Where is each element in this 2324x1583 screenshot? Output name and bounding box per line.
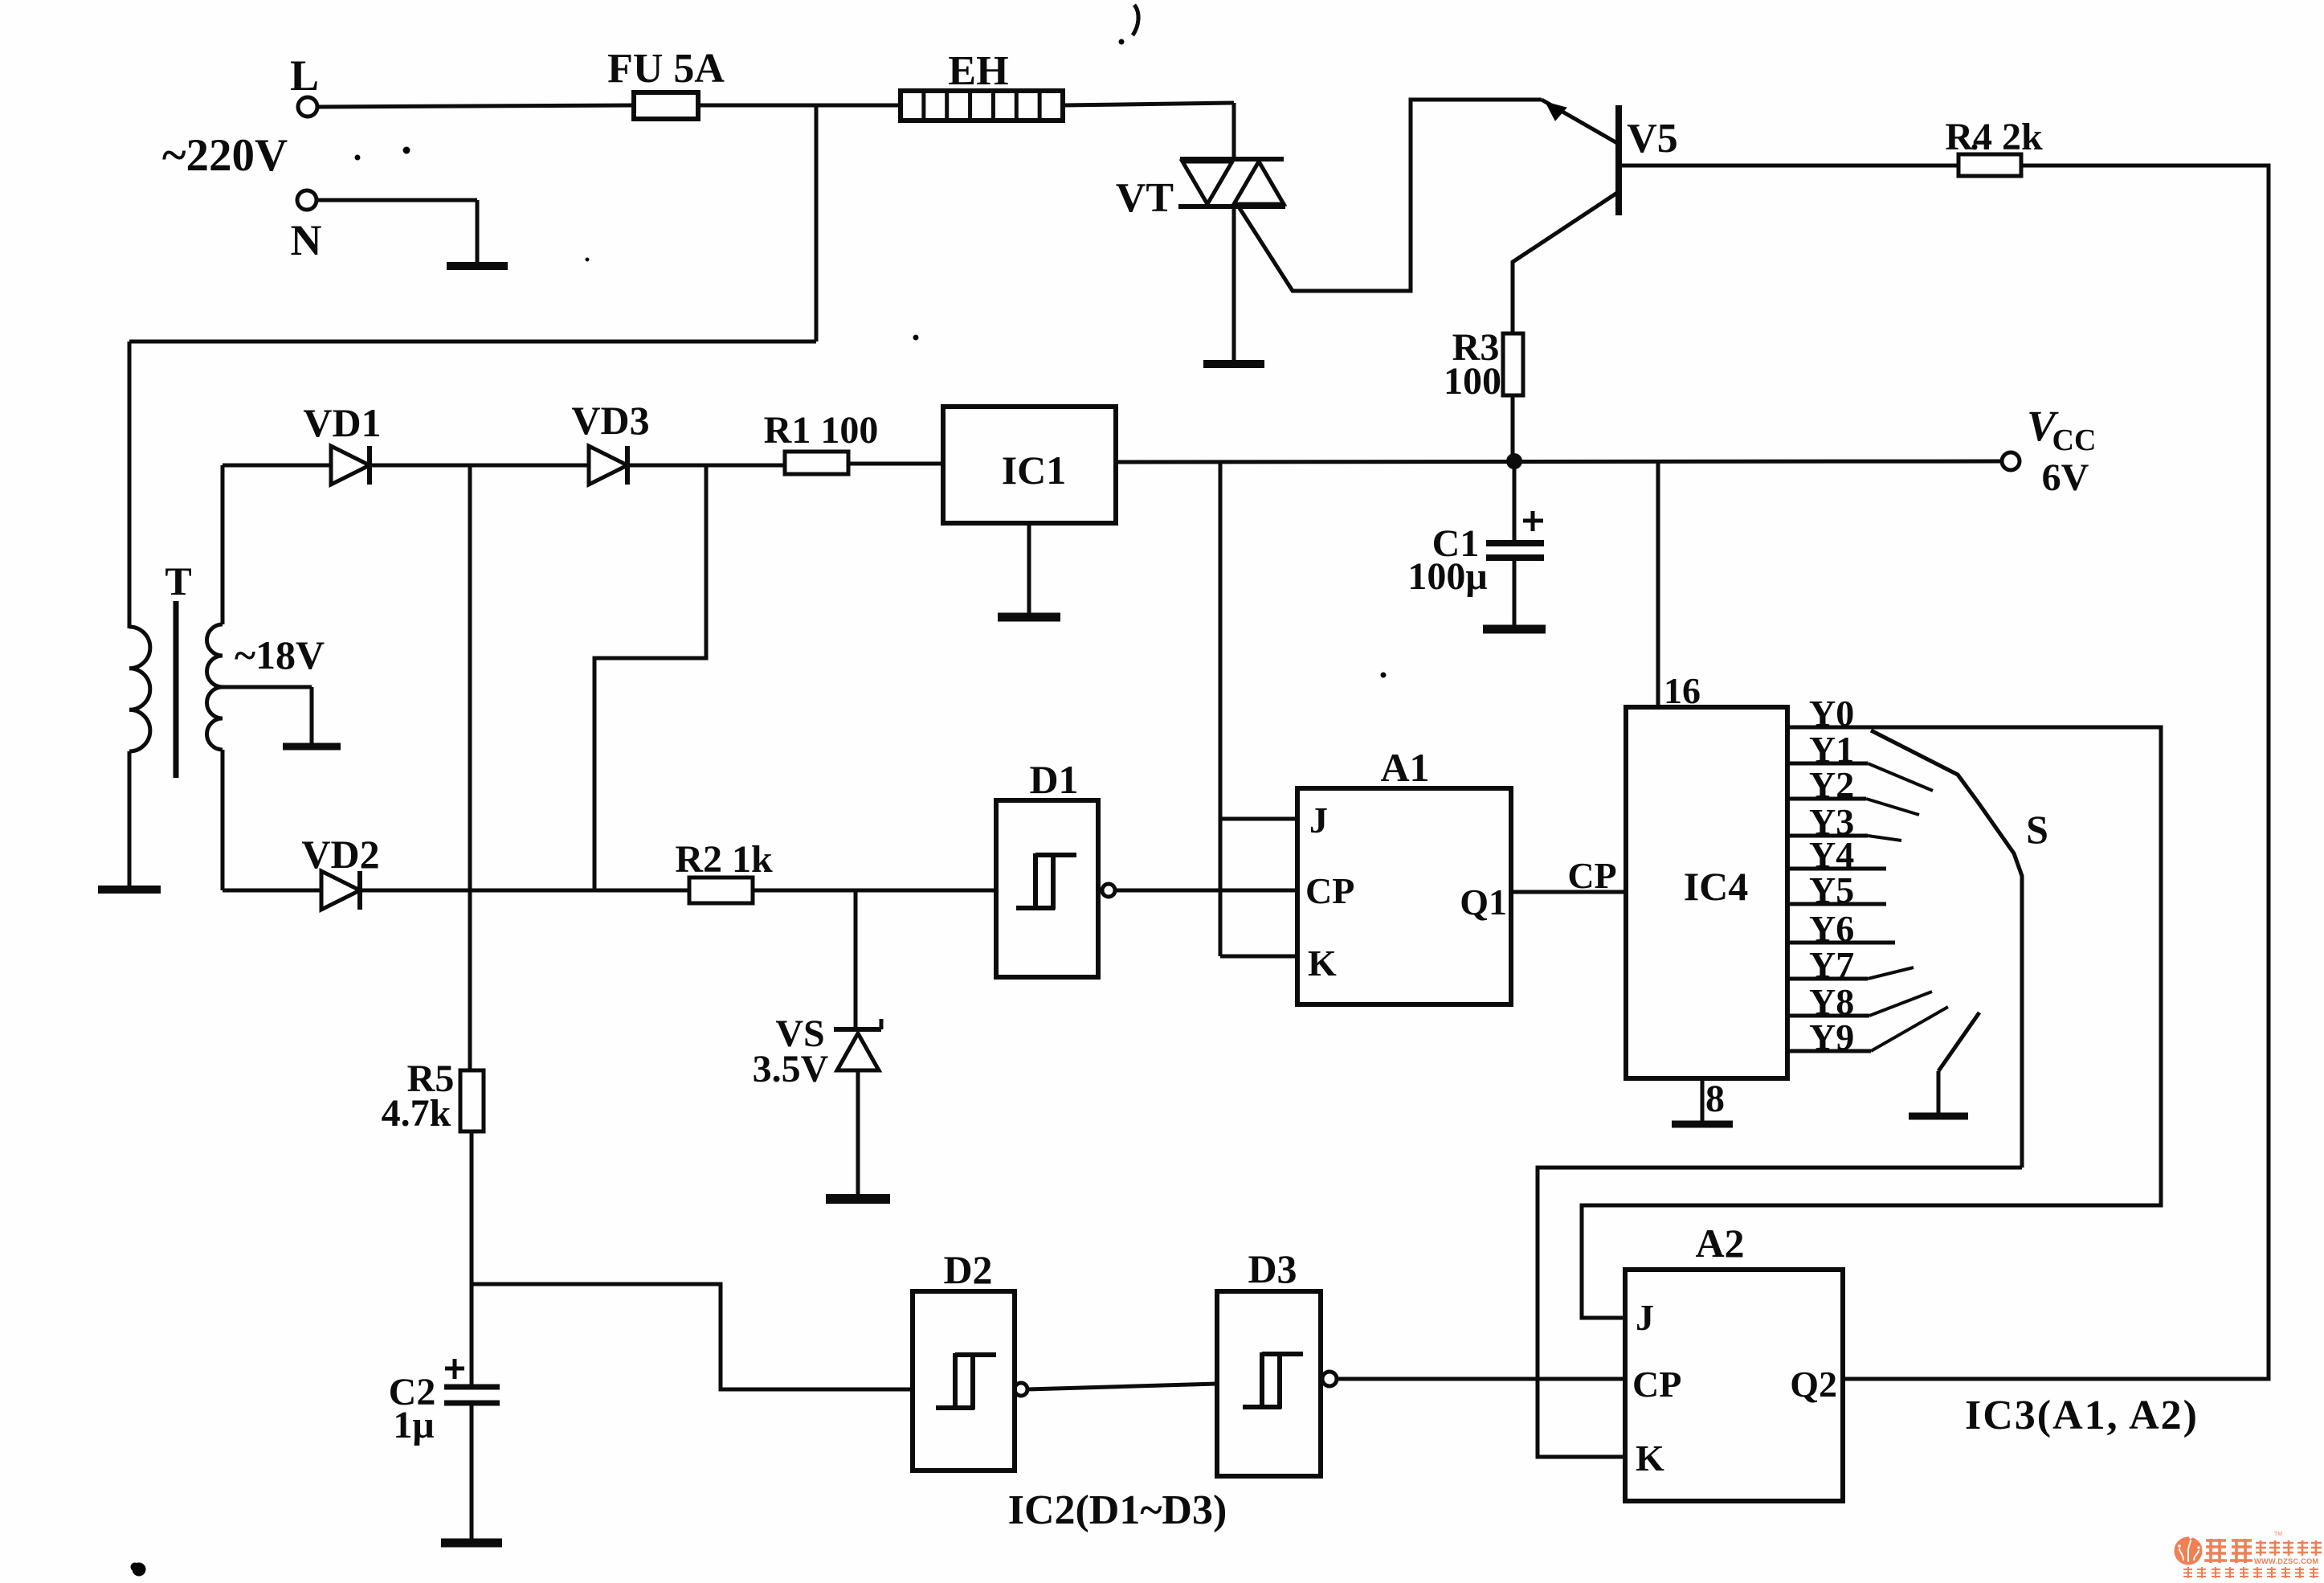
svg-text:R1 100: R1 100 bbox=[764, 409, 879, 452]
svg-text:Y9: Y9 bbox=[1809, 1016, 1854, 1057]
svg-text:EH: EH bbox=[948, 48, 1008, 94]
svg-text:J: J bbox=[1636, 1297, 1654, 1338]
svg-text:CP: CP bbox=[1567, 855, 1616, 896]
svg-text:IC1: IC1 bbox=[1002, 448, 1067, 493]
svg-text:8: 8 bbox=[1705, 1078, 1725, 1120]
svg-text:S: S bbox=[2026, 807, 2048, 852]
svg-text:VD3: VD3 bbox=[571, 398, 649, 443]
svg-text:Y7: Y7 bbox=[1809, 944, 1854, 985]
svg-text:R4 2k: R4 2k bbox=[1945, 116, 2043, 158]
svg-text:100μ: 100μ bbox=[1407, 555, 1487, 598]
svg-text:CC: CC bbox=[2052, 423, 2097, 457]
svg-text:TM: TM bbox=[2274, 1532, 2282, 1537]
svg-text:L: L bbox=[290, 51, 319, 100]
svg-text:J: J bbox=[1309, 800, 1328, 841]
svg-text:D2: D2 bbox=[943, 1247, 992, 1292]
svg-text:K: K bbox=[1308, 943, 1337, 984]
svg-text:16: 16 bbox=[1664, 670, 1701, 711]
svg-text:Y0: Y0 bbox=[1809, 693, 1854, 734]
svg-text:Q2: Q2 bbox=[1790, 1364, 1837, 1405]
svg-text:VT: VT bbox=[1116, 175, 1174, 221]
svg-text:VD2: VD2 bbox=[301, 832, 379, 877]
svg-text:A2: A2 bbox=[1695, 1221, 1744, 1266]
svg-text:T: T bbox=[165, 558, 191, 603]
svg-text:IC2(D1~D3): IC2(D1~D3) bbox=[1008, 1487, 1227, 1533]
svg-text:R2 1k: R2 1k bbox=[675, 838, 773, 881]
svg-text:CP: CP bbox=[1632, 1364, 1681, 1405]
svg-text:IC4: IC4 bbox=[1684, 864, 1749, 909]
svg-text:3.5V: 3.5V bbox=[753, 1048, 829, 1090]
svg-text:N: N bbox=[291, 216, 322, 264]
svg-text:~220V: ~220V bbox=[162, 130, 288, 181]
svg-text:Y6: Y6 bbox=[1809, 908, 1854, 949]
svg-text:~18V: ~18V bbox=[235, 632, 325, 677]
svg-text:K: K bbox=[1636, 1438, 1664, 1479]
svg-text:V5: V5 bbox=[1627, 116, 1678, 162]
svg-text:100: 100 bbox=[1444, 360, 1501, 403]
svg-text:D1: D1 bbox=[1029, 757, 1078, 802]
svg-text:FU 5A: FU 5A bbox=[607, 46, 725, 92]
svg-text:D3: D3 bbox=[1248, 1246, 1297, 1291]
svg-text:Y2: Y2 bbox=[1809, 764, 1854, 805]
svg-text:1μ: 1μ bbox=[393, 1404, 434, 1446]
svg-text:6V: 6V bbox=[2042, 456, 2089, 499]
svg-text:4.7k: 4.7k bbox=[382, 1092, 451, 1135]
svg-text:IC3(A1, A2): IC3(A1, A2) bbox=[1965, 1393, 2199, 1438]
svg-text:Q1: Q1 bbox=[1460, 881, 1507, 922]
svg-text:VD1: VD1 bbox=[303, 400, 381, 445]
svg-text:A1: A1 bbox=[1380, 745, 1429, 790]
svg-text:Y5: Y5 bbox=[1809, 869, 1854, 910]
svg-text:WWW.DZSC.COM: WWW.DZSC.COM bbox=[2254, 1557, 2318, 1565]
svg-text:CP: CP bbox=[1305, 870, 1354, 911]
